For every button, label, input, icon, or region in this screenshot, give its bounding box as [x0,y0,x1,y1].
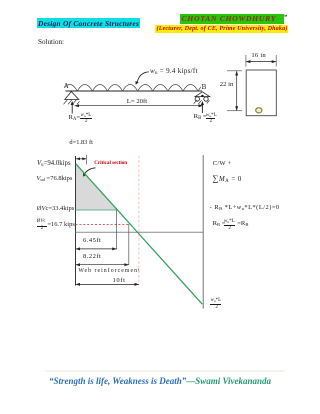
Vud label [36,176,72,183]
Solution heading [38,39,64,46]
section width label 16 in [251,53,266,60]
Vu label [37,161,71,168]
phiVc level line [76,209,117,211]
d dimension line [76,158,86,160]
zero baseline [76,231,204,233]
16in extension ticks [245,55,247,67]
C/W + label [213,161,232,168]
closing quote mark [284,15,287,22]
span dimension line L [75,105,204,107]
shear diagram shaded area [76,164,117,210]
right boundary line [202,155,204,309]
16in dimension line [246,61,276,63]
rebar dot [256,108,262,113]
shear force line [76,164,203,304]
6.45ft dimension line [76,248,117,250]
dim label d=1.83 ft [69,140,92,146]
moment equation [210,205,280,211]
reaction arrow RA [71,103,73,114]
title highlight: Design Of Concrete Structures [37,18,140,28]
support A pin [65,92,79,100]
22in dimension line [236,71,238,110]
support A hatching [64,100,80,105]
RB fraction wu*L/2 [206,113,217,118]
phiVc/2 fraction label [37,220,46,225]
critical section pointer arrow [84,168,95,175]
load arrow [137,72,149,82]
support B roller [195,92,209,97]
sum MA = 0 [212,174,241,184]
8.22ft dimension line [76,264,129,266]
reaction arrow RB [201,103,203,113]
beam line [66,90,203,92]
phiVc label [37,206,74,213]
node B label [202,84,207,91]
cross-section rectangle [246,70,276,116]
name highlight: CHOTAN CHOWDHURY [180,14,284,24]
RB result equation [213,221,226,228]
faint ghost line [45,370,285,372]
span label L = 20ft [127,99,147,106]
roller circles [195,97,199,101]
critical section tick [85,155,87,165]
shear axis [75,156,77,286]
vertical line at 8.22ft [128,224,130,265]
reaction label RA [69,115,81,122]
footer quote [0,377,320,386]
critical section label [94,161,127,166]
lecturer highlight line [155,25,289,33]
dim label 8.22ft [83,254,101,261]
dim label 10ft [112,278,127,285]
22in extension ticks [227,70,242,72]
phiVc/2 red dashed line [76,223,129,225]
wu*L/2 label at diagram bottom [211,298,222,303]
10ft dimension line [76,283,139,285]
support B pin dot [201,95,203,97]
section depth label 22 in [220,82,234,89]
midspan dashed line [138,156,140,286]
load value label wu = 9.4 kips/ft [150,68,198,76]
support B hatching [194,100,210,104]
RA fraction wu*L/2 [81,113,92,118]
node A label [64,83,69,90]
vertical line at 6.45ft [116,209,118,250]
web reinforcement label [78,269,140,275]
reaction label RB [194,114,207,121]
dim label 6.45ft [83,238,101,245]
